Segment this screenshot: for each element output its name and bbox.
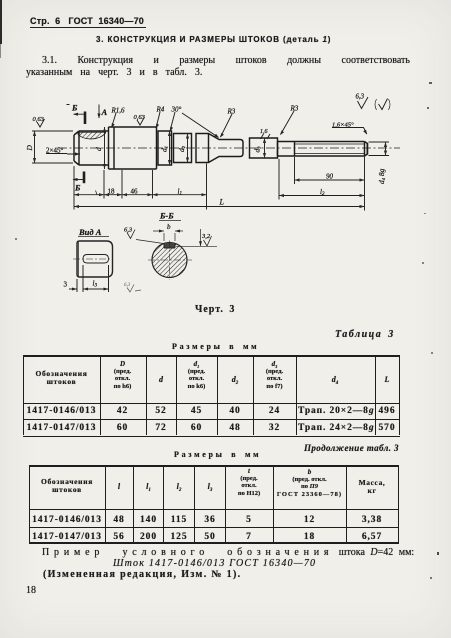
svg-text:1,6: 1,6 [260, 129, 268, 135]
svg-text:0,63: 0,63 [134, 114, 146, 121]
svg-text:18: 18 [108, 188, 116, 196]
svg-text:R4: R4 [156, 106, 165, 114]
svg-text:30°: 30° [171, 106, 182, 114]
svg-text:2×45°: 2×45° [46, 147, 63, 155]
svg-text:Б: Б [71, 103, 78, 113]
svg-text:l1: l1 [178, 188, 182, 197]
svg-text:b: b [167, 223, 171, 231]
svg-text:А: А [101, 107, 108, 117]
svg-text:D: D [25, 145, 34, 152]
svg-text:R3: R3 [290, 105, 299, 113]
svg-text:1,6×45°: 1,6×45° [332, 122, 354, 129]
svg-text:3,2: 3,2 [201, 233, 211, 240]
svg-text:Б-Б: Б-Б [159, 211, 174, 221]
svg-text:l2: l2 [320, 188, 325, 197]
svg-text:Б: Б [74, 183, 81, 193]
svg-text:d2: d2 [177, 145, 186, 152]
svg-text:90: 90 [326, 173, 334, 181]
svg-text:6,3: 6,3 [124, 283, 131, 288]
svg-text:L: L [219, 198, 225, 207]
svg-text:6,3: 6,3 [356, 94, 365, 101]
svg-text:Вид А: Вид А [78, 227, 102, 237]
svg-text:R3: R3 [227, 108, 236, 116]
svg-text:d1: d1 [160, 146, 169, 152]
svg-text:6,3: 6,3 [124, 227, 133, 234]
svg-text:d: d [94, 147, 103, 151]
svg-text:0,63: 0,63 [33, 116, 45, 123]
svg-text:R1,6: R1,6 [111, 107, 126, 115]
svg-text:3: 3 [64, 281, 68, 289]
svg-text:l3: l3 [93, 280, 98, 289]
svg-text:46: 46 [131, 188, 139, 196]
svg-text:d4 8g: d4 8g [377, 168, 386, 184]
svg-text:d3: d3 [253, 146, 262, 153]
